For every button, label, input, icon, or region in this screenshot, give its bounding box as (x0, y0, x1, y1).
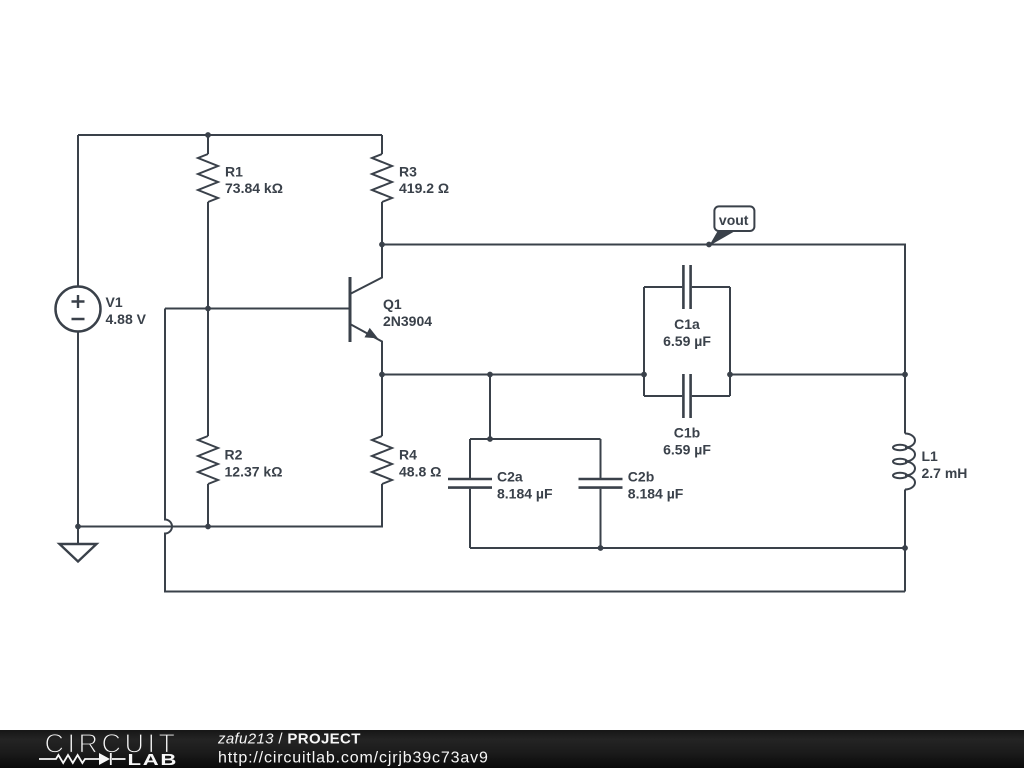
svg-text:R3: R3 (399, 163, 417, 179)
svg-text:4.88 V: 4.88 V (106, 311, 147, 327)
svg-text:2.7 mH: 2.7 mH (922, 465, 968, 481)
svg-text:73.84 kΩ: 73.84 kΩ (225, 180, 283, 196)
svg-text:V1: V1 (106, 294, 123, 310)
svg-text:C1b: C1b (674, 425, 700, 441)
svg-text:C1a: C1a (674, 316, 700, 332)
svg-text:R2: R2 (225, 447, 243, 463)
svg-text:419.2 Ω: 419.2 Ω (399, 180, 449, 196)
svg-text:2N3904: 2N3904 (383, 313, 432, 329)
svg-text:zafu213 / PROJECT: zafu213 / PROJECT (217, 730, 361, 747)
svg-text:vout: vout (719, 212, 749, 228)
svg-text:L1: L1 (922, 448, 939, 464)
svg-text:http://circuitlab.com/cjrjb39c: http://circuitlab.com/cjrjb39c73av9 (218, 750, 489, 767)
svg-text:6.59 µF: 6.59 µF (663, 441, 711, 457)
svg-text:R4: R4 (399, 447, 417, 463)
svg-text:8.184 µF: 8.184 µF (497, 486, 553, 502)
svg-text:C2b: C2b (628, 469, 654, 485)
svg-text:8.184 µF: 8.184 µF (628, 486, 684, 502)
svg-text:Q1: Q1 (383, 296, 402, 312)
svg-text:12.37 kΩ: 12.37 kΩ (225, 463, 283, 479)
svg-text:R1: R1 (225, 163, 243, 179)
svg-text:48.8 Ω: 48.8 Ω (399, 463, 441, 479)
svg-text:6.59 µF: 6.59 µF (663, 333, 711, 349)
svg-text:C2a: C2a (497, 469, 523, 485)
svg-text:LAB: LAB (128, 752, 179, 768)
